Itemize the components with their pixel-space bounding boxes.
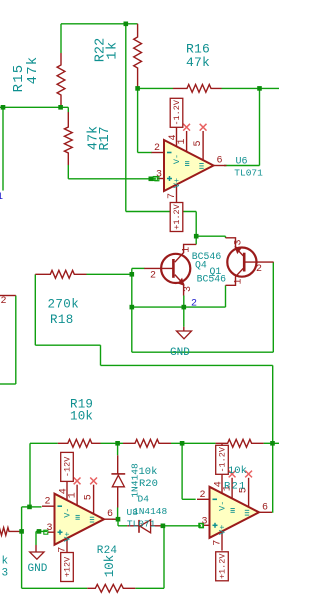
svg-text:6: 6 — [217, 156, 223, 167]
svg-text:2: 2 — [150, 271, 156, 282]
svg-text:BC546: BC546 — [197, 274, 227, 285]
svg-text:V-: V- — [62, 508, 72, 518]
svg-text:GND: GND — [28, 563, 48, 575]
svg-text:3: 3 — [202, 516, 208, 527]
svg-text:10k: 10k — [139, 466, 158, 478]
svg-text:1N4148: 1N4148 — [129, 463, 140, 498]
svg-text:1N4148: 1N4148 — [133, 506, 168, 517]
svg-text:47k: 47k — [25, 56, 41, 85]
svg-text:Q4: Q4 — [195, 260, 207, 271]
svg-text:R17: R17 — [98, 126, 113, 150]
svg-text:7: 7 — [58, 547, 69, 553]
svg-text:R21: R21 — [224, 481, 247, 493]
svg-text:1: 1 — [68, 492, 79, 498]
svg-text:R20: R20 — [139, 478, 158, 490]
svg-text:6: 6 — [107, 509, 113, 520]
svg-text:+1.2V: +1.2V — [218, 553, 228, 579]
svg-text:TL071: TL071 — [234, 168, 263, 179]
svg-text:7: 7 — [213, 540, 224, 546]
svg-text:1: 1 — [0, 192, 3, 203]
svg-text:1: 1 — [233, 278, 244, 284]
svg-text:-1.2V: -1.2V — [172, 99, 182, 125]
svg-text:2: 2 — [200, 490, 206, 501]
svg-text:2: 2 — [154, 143, 160, 154]
svg-text:V-: V- — [217, 501, 227, 511]
svg-text:V+: V+ — [63, 532, 73, 542]
svg-text:7: 7 — [167, 193, 178, 199]
svg-text:3: 3 — [47, 523, 53, 534]
svg-text:k: k — [2, 556, 9, 568]
svg-text:47k: 47k — [186, 55, 210, 70]
svg-text:TL071: TL071 — [127, 519, 156, 530]
svg-text:3: 3 — [233, 239, 244, 245]
svg-text:+12V: +12V — [63, 556, 73, 577]
svg-text:U6: U6 — [236, 157, 248, 168]
svg-text:2: 2 — [45, 497, 51, 508]
svg-text:10k: 10k — [228, 465, 247, 477]
svg-text:GND: GND — [170, 347, 190, 359]
svg-text:1: 1 — [181, 247, 192, 253]
svg-text:270k: 270k — [48, 298, 80, 312]
svg-text:-1.2V: -1.2V — [218, 446, 228, 472]
svg-text:1k: 1k — [106, 40, 121, 59]
svg-text:3: 3 — [183, 286, 194, 292]
svg-text:V+: V+ — [172, 178, 182, 188]
svg-text:5: 5 — [84, 494, 95, 500]
svg-text:V-: V- — [172, 154, 182, 164]
svg-text:2: 2 — [191, 299, 197, 310]
svg-text:5: 5 — [193, 140, 204, 146]
svg-text:V+: V+ — [218, 525, 228, 535]
svg-text:R18: R18 — [50, 313, 74, 327]
svg-text:10k: 10k — [70, 410, 93, 424]
svg-text:2: 2 — [256, 264, 262, 275]
svg-text:1: 1 — [177, 138, 188, 144]
svg-text:3: 3 — [2, 568, 9, 580]
svg-text:6: 6 — [262, 502, 268, 513]
svg-text:+1.2V: +1.2V — [172, 203, 182, 229]
svg-text:-12V: -12V — [63, 456, 73, 477]
svg-text:2: 2 — [1, 296, 7, 307]
svg-text:10k: 10k — [103, 555, 117, 578]
